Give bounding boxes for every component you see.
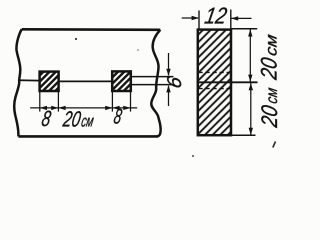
12 dimension: right extension line <box>230 10 232 30</box>
mid line between blocks <box>59 80 113 82</box>
mid line left of left block <box>19 79 39 81</box>
board right break (wavy) edge <box>151 30 160 137</box>
hidden mortise top (dashed) <box>199 71 231 73</box>
vertical dimension line lower 20cm <box>250 83 252 135</box>
dimension 6 lower arrow <box>168 86 170 106</box>
12 dimension: right arrow with tail <box>232 17 252 19</box>
vertical dimension line upper 20cm <box>249 30 251 82</box>
tenon strip bottom line <box>131 84 174 86</box>
board bottom line <box>18 135 158 138</box>
top extension line to the right <box>231 28 257 30</box>
svg-text:см: см <box>263 33 281 57</box>
tenon strip top line <box>131 76 174 78</box>
speck faint near right break <box>137 49 139 51</box>
extension line below right block left <box>111 91 113 111</box>
arrowheads of chain dimension <box>40 106 131 110</box>
middle division line with right extension <box>198 81 258 83</box>
svg-text:см: см <box>263 86 281 105</box>
speck near top line <box>75 38 77 40</box>
extension line below left block right <box>57 91 59 111</box>
12 dimension: left extension line <box>198 11 200 30</box>
speck apostrophe bottom right <box>273 142 276 148</box>
dimension 6 upper arrow <box>168 53 170 75</box>
left hatched block <box>40 72 59 91</box>
post body <box>198 30 231 136</box>
board top line <box>22 28 161 31</box>
right hatched block <box>112 71 131 91</box>
speck dot bottom of post <box>192 155 194 157</box>
chain dimension line 8 / 20cm / 8 <box>30 107 137 109</box>
extension line below right block right <box>130 91 132 111</box>
12 dimension: left arrow with tail <box>182 17 198 19</box>
hidden mortise bottom (dashed) <box>199 88 231 90</box>
board left break (wavy) edge <box>14 29 22 136</box>
bottom extension line to the right <box>231 134 256 136</box>
extension line below left block left <box>39 91 41 111</box>
